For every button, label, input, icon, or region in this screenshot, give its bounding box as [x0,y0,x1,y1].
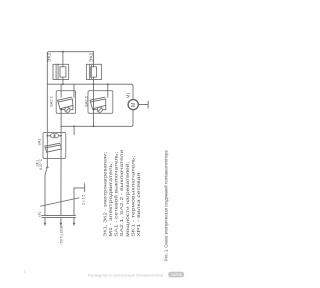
switch SA2.1 [56,84,75,113]
switch SA2.2 [88,84,113,113]
junction dot EK1/bus B [62,83,64,85]
svg-text:SA1 - сетевой выключатель;: SA1 - сетевой выключатель; [113,152,119,237]
junction dot EK2/bus B [93,83,95,85]
wire: pin 3 riser with chassis branch [73,188,75,216]
cable marker 3x1.5 [41,198,80,206]
switch SA1 [43,133,66,159]
svg-text:ХР1: ХР1 [38,212,42,218]
motor M1 [128,100,148,127]
svg-text:2: 2 [24,269,27,274]
wire: SA2.2 left lead down to bus C [93,114,95,127]
svg-text:ЭК1, ЭК2 - электронагреватели;: ЭК1, ЭК2 - электронагреватели; [102,152,107,237]
wire: SA1 left lead down to SK1 [46,136,48,167]
thermal switch SK1 [45,167,48,215]
resistor/heater EK1 [53,64,69,79]
svg-text:SUPRA: SUPRA [171,273,183,277]
junction dot bus C stub [73,125,75,127]
svg-text:ЭК2: ЭК2 [88,52,93,62]
svg-text:ХР1 - вилка сетевая: ХР1 - вилка сетевая [136,172,141,237]
wire: EK2 bottom lead through bus B into SA2.2 [93,77,95,113]
wire: EK1 bottom lead [62,77,64,84]
svg-text:Рис. 1. Схема электрическая со: Рис. 1. Схема электрическая соединений т… [163,150,168,261]
wire: SA2.1 right lead down through SA1 to plug pin 2 [60,110,62,216]
junction dot bus C / SA2.2 [93,125,95,127]
wire: bus C (motor/lower bus) [61,125,131,127]
svg-text:SA2.1, SA2.2 - выключатели: SA2.1, SA2.2 - выключатели [119,149,124,237]
legend text block [102,149,141,237]
wire: top bus node A [47,52,93,54]
pin 1 arrow [44,218,47,226]
svg-text:SA2.1: SA2.1 [49,96,53,107]
svg-text:~50 Гц 220В: ~50 Гц 220В [59,225,64,245]
resistor/heater EK2 [86,64,101,79]
svg-text:М: М [131,103,137,107]
svg-text:мощности нагревателей;: мощности нагревателей; [124,162,130,237]
svg-text:Руководство по эксплуатации Те: Руководство по эксплуатации Тепловентиля… [88,273,163,277]
svg-text:SA1: SA1 [37,139,41,146]
chassis/earth symbol [74,184,85,192]
svg-text:t120 °C: t120 °C [39,159,43,170]
svg-text:М1 - электродвигатель;: М1 - электродвигатель; [108,162,113,237]
svg-text:SK1 - термовыключатель;: SK1 - термовыключатель; [130,156,135,237]
junction dot bus B / SA2.2 right [107,83,109,85]
pin 3 arrow [73,218,76,226]
connector XP1 plug body [42,215,76,217]
fan blade [138,104,148,106]
wire: EK1 top lead [62,52,64,67]
node A junction dot at EK1 [62,51,64,53]
neon lamp HL inside SA1 [51,134,55,138]
svg-text:ЭК1: ЭК1 [46,52,51,62]
wire: stub from bus C [73,126,75,135]
wire: bus B under heaters [47,84,133,99]
svg-text:SA2.2: SA2.2 [85,96,89,107]
pin 2 arrow [60,218,63,226]
wire: EK2 top lead [93,52,95,67]
footer badge [168,272,184,278]
svg-text:М1: М1 [125,92,130,98]
wire: left vertical from node A down to SA1 [46,53,48,136]
svg-text:3 х 1,5: 3 х 1,5 [82,194,86,205]
